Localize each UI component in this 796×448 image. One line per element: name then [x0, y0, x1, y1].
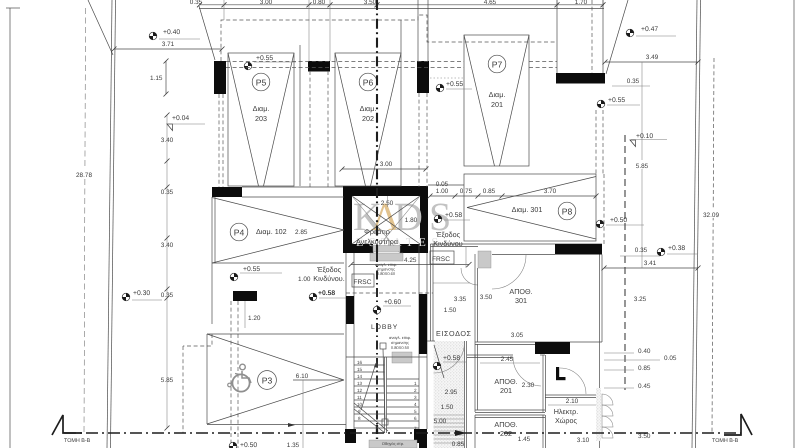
svg-text:1.00: 1.00	[436, 188, 449, 195]
left dim column line	[166, 115, 168, 428]
stair up arrow	[361, 363, 376, 410]
dim 3.41 line	[604, 267, 698, 269]
dashed line across lobby	[346, 292, 433, 294]
svg-text:FRSC: FRSC	[432, 256, 450, 263]
wall stub line right of shaft	[428, 184, 464, 186]
dim 3.00 under P6	[342, 168, 426, 170]
stair top landing line	[346, 356, 427, 358]
P3 top edge line	[207, 333, 344, 335]
svg-text:14: 14	[357, 374, 363, 379]
svg-text:ΕΙΣΟΔΟΣ: ΕΙΣΟΔΟΣ	[436, 329, 472, 338]
stall P4 triangle	[212, 198, 344, 231]
lobby tactile plate	[392, 352, 412, 363]
dim 5.85 east line	[641, 62, 643, 268]
svg-text:P6: P6	[363, 78, 374, 88]
svg-text:0.80: 0.80	[313, 0, 326, 6]
svg-text:+0.58: +0.58	[318, 290, 335, 297]
svg-text:11: 11	[357, 395, 362, 400]
aisle dashed lines	[226, 61, 464, 63]
svg-text:+0.55: +0.55	[446, 81, 463, 88]
dashed below C1	[218, 94, 220, 187]
elevator shaft outer black	[343, 186, 428, 253]
shaft door sill	[373, 246, 400, 252]
svg-text:28.78: 28.78	[76, 172, 92, 179]
svg-text:1.00: 1.00	[298, 276, 311, 283]
svg-text:1.35: 1.35	[287, 442, 300, 448]
svg-text:0.45: 0.45	[638, 383, 651, 390]
svg-text:Έξοδος: Έξοδος	[435, 230, 461, 239]
east dashed setback line	[712, 58, 714, 433]
FRSC box west	[352, 274, 374, 287]
ramp wall west	[556, 0, 558, 74]
stall P5 bubble	[252, 73, 270, 91]
marker +0.58 west	[309, 293, 317, 301]
room202 north wall	[475, 414, 545, 416]
svg-text:201: 201	[491, 100, 503, 109]
stall P7 bubble	[488, 55, 506, 73]
svg-text:Διαμ.: Διαμ.	[253, 104, 270, 113]
svg-text:3.50: 3.50	[364, 0, 377, 6]
svg-text:3.40: 3.40	[161, 137, 174, 144]
ramp diagonal boundary	[606, 0, 628, 74]
east boundary double line	[692, 0, 697, 448]
louver strip stipple	[596, 388, 601, 441]
stall P7 vee	[464, 35, 495, 166]
svg-text:16: 16	[357, 360, 363, 365]
svg-text:P3: P3	[262, 376, 273, 386]
column C4 black	[233, 291, 257, 301]
dim 1.20	[244, 301, 246, 328]
elevator shaft door gap	[373, 244, 400, 253]
svg-text:32.09: 32.09	[703, 212, 719, 219]
svg-text:3.40: 3.40	[161, 242, 174, 249]
stall P6 box	[335, 53, 401, 186]
svg-text:4.25: 4.25	[404, 257, 417, 264]
entrance door leaf	[434, 345, 444, 378]
marker +0.55 P5	[244, 62, 252, 70]
stall P5 vee	[228, 53, 259, 186]
louver door arcs	[602, 394, 613, 405]
room301 west wall	[474, 254, 476, 342]
svg-text:0.85: 0.85	[483, 188, 496, 195]
dim 0.35 right	[612, 85, 650, 87]
dim line 3.35-1.50	[433, 282, 470, 284]
room301 door jamb	[478, 251, 491, 268]
P3 dim line 1.35	[293, 379, 344, 381]
stall divider right of P5	[299, 45, 301, 186]
left border line	[9, 8, 11, 448]
svg-text:5.85: 5.85	[161, 377, 174, 384]
elec door arc	[560, 368, 586, 394]
column C2 flat	[308, 61, 330, 72]
stall P8 bubble	[558, 202, 576, 220]
P3 triangle	[207, 334, 344, 380]
room301 south black	[535, 342, 570, 354]
svg-text:+0.10: +0.10	[636, 133, 653, 140]
svg-text:0.35: 0.35	[161, 292, 174, 299]
marker +0.58 P8 left	[434, 215, 442, 223]
svg-text:3.50: 3.50	[638, 433, 651, 440]
svg-text:3.25: 3.25	[634, 296, 647, 303]
stair numbers left	[357, 360, 363, 421]
svg-text:0.35: 0.35	[627, 78, 640, 85]
room202 east wall	[542, 415, 544, 448]
svg-text:1: 1	[414, 381, 417, 386]
top dim ticks	[197, 2, 606, 7]
P3 dashed box	[183, 334, 212, 346]
elec north wall	[545, 394, 599, 396]
svg-text:13: 13	[357, 381, 363, 386]
room301 south wall	[475, 341, 602, 343]
wall band west of 201	[474, 342, 476, 357]
top building edge line	[199, 8, 604, 10]
marker +0.55 mid	[436, 84, 444, 92]
svg-text:+0.58: +0.58	[445, 212, 462, 219]
dim 3.71 line	[114, 48, 222, 50]
svg-text:2.95: 2.95	[445, 389, 458, 396]
room201 dims	[480, 362, 540, 364]
section marker west	[52, 415, 82, 435]
marker +0.30	[122, 293, 130, 301]
room201 north wall	[467, 354, 513, 356]
svg-text:4.65: 4.65	[484, 0, 497, 6]
entrance door arc	[434, 342, 465, 373]
svg-text:0.05: 0.05	[436, 181, 449, 188]
svg-text:ΑΠΟΘ.: ΑΠΟΘ.	[494, 420, 517, 429]
marker +0.47	[626, 29, 634, 37]
svg-text:1.70: 1.70	[575, 0, 588, 6]
svg-text:+0.04: +0.04	[172, 115, 189, 122]
svg-text:+0.55: +0.55	[243, 266, 260, 273]
stair steps left flight	[354, 365, 385, 428]
dashed below C2	[309, 71, 311, 187]
svg-text:3.50: 3.50	[480, 294, 493, 301]
section line vertical dash-dot	[376, 0, 378, 448]
svg-text:3.00: 3.00	[380, 161, 393, 168]
svg-text:5.00: 5.00	[434, 418, 447, 425]
svg-text:+0.40: +0.40	[163, 29, 180, 36]
svg-text:3.10: 3.10	[577, 437, 590, 444]
stair mid wall	[384, 357, 386, 433]
corridor top wall stub	[427, 340, 435, 342]
stair guide box	[369, 440, 417, 448]
corridor stipple	[434, 341, 465, 448]
wall A black	[212, 187, 242, 197]
lobby east wall black	[419, 294, 427, 354]
dashed right of P8	[603, 174, 605, 245]
stall P4 base line	[212, 262, 344, 264]
north wall line	[431, 243, 603, 245]
west boundary double line	[107, 0, 112, 448]
svg-text:0.80Χ0.50: 0.80Χ0.50	[391, 345, 410, 350]
stall P8 vee	[467, 177, 596, 208]
svg-text:1.45: 1.45	[518, 436, 531, 443]
room201 door arc	[513, 357, 541, 386]
column C3 flank lines	[417, 0, 419, 61]
svg-text:0.40: 0.40	[638, 348, 651, 355]
svg-text:0.35: 0.35	[161, 189, 174, 196]
svg-text:3.41: 3.41	[644, 260, 657, 267]
column C3	[417, 61, 429, 93]
room202 west wall	[474, 415, 476, 448]
svg-text:1.20: 1.20	[248, 315, 261, 322]
corridor door arc	[461, 268, 478, 285]
stall P6 bubble	[359, 73, 377, 91]
svg-text:+0.55: +0.55	[256, 55, 273, 62]
dim 3.49 line	[605, 61, 698, 63]
dim 28.78 vertical line	[84, 8, 86, 433]
room201 west wall	[474, 355, 476, 412]
svg-text:0.05: 0.05	[664, 355, 677, 362]
room201 east wall	[542, 355, 544, 412]
svg-text:5: 5	[414, 409, 417, 414]
svg-text:Οδηγός στρ.: Οδηγός στρ.	[382, 441, 404, 446]
elec dim	[548, 404, 596, 406]
svg-text:2: 2	[414, 388, 417, 393]
lobby west wall lines	[345, 253, 347, 429]
svg-text:ΤΟΜΗ Β-Β: ΤΟΜΗ Β-Β	[64, 438, 91, 444]
svg-text:1.80: 1.80	[405, 217, 418, 224]
svg-text:1.15: 1.15	[150, 75, 163, 82]
stall P7 box	[464, 35, 529, 166]
marker +0.50 P8 right	[596, 220, 604, 228]
svg-text:3: 3	[414, 395, 417, 400]
svg-text:3.05: 3.05	[511, 332, 524, 339]
svg-text:6: 6	[414, 416, 417, 421]
lobby west wall black	[346, 296, 354, 324]
svg-text:2.50: 2.50	[381, 200, 394, 207]
svg-text:+0.30: +0.30	[133, 290, 150, 297]
svg-text:0.85: 0.85	[638, 365, 651, 372]
svg-text:0.35: 0.35	[635, 247, 648, 254]
svg-text:Κινδύνου.: Κινδύνου.	[313, 274, 344, 283]
dim 32.09	[702, 209, 725, 218]
svg-text:0.35: 0.35	[190, 0, 203, 6]
FRSC box north	[430, 251, 454, 264]
marker +0.50 bottom left	[229, 442, 237, 448]
page frame right	[793, 0, 795, 448]
ramp dashed center	[591, 0, 593, 74]
east leader dims	[604, 352, 634, 354]
dashed below C4	[230, 301, 232, 448]
marker +0.55 right of P7	[597, 100, 605, 108]
svg-text:3.70: 3.70	[544, 188, 557, 195]
svg-text:Χώρος: Χώρος	[555, 416, 577, 425]
svg-text:Έξοδος: Έξοδος	[316, 265, 342, 274]
svg-text:0.85: 0.85	[452, 441, 465, 448]
stair rail line	[383, 349, 385, 419]
svg-text:ΑΠΟΘ.: ΑΠΟΘ.	[509, 287, 532, 296]
svg-text:3.71: 3.71	[162, 41, 175, 48]
marker +0.58 entrance	[433, 362, 441, 370]
ramp bottom wall black	[556, 73, 605, 84]
stall P4 west wall	[211, 197, 213, 324]
P8 dim line	[430, 195, 596, 197]
wheelchair symbol	[228, 364, 251, 391]
lobby east wall lines	[418, 244, 420, 429]
svg-text:Διαμ.: Διαμ.	[360, 104, 377, 113]
boundary diagonal top-left	[88, 0, 113, 55]
dim 1.15 vertical	[165, 61, 167, 94]
wall stub x466	[465, 246, 467, 268]
svg-text:1.50: 1.50	[444, 307, 457, 314]
stair steps right flight	[387, 379, 420, 428]
svg-text:Διαμ. 102: Διαμ. 102	[256, 227, 287, 236]
svg-text:ΑΠΟΘ.: ΑΠΟΘ.	[494, 377, 517, 386]
stair break lines	[354, 403, 388, 431]
svg-text:2.10: 2.10	[566, 398, 579, 405]
svg-text:Διαμ. 301: Διαμ. 301	[512, 205, 543, 214]
room301 door arc	[492, 255, 526, 289]
stair bottom black east	[414, 429, 427, 443]
stall P6 vee	[335, 53, 366, 186]
svg-text:P5: P5	[256, 78, 267, 88]
section dash-dot horizontal	[64, 432, 741, 434]
svg-text:+0.55: +0.55	[608, 97, 625, 104]
svg-text:Ηλεκτρ.: Ηλεκτρ.	[554, 407, 579, 416]
left border top tick	[6, 7, 20, 9]
stair bottom black west	[345, 429, 356, 443]
svg-text:P8: P8	[562, 207, 573, 217]
corridor west wall	[430, 244, 432, 341]
svg-text:+0.47: +0.47	[641, 26, 658, 33]
dashed above P8	[595, 110, 597, 174]
svg-text:202: 202	[362, 114, 374, 123]
leader diagonal 0.35	[199, 6, 215, 60]
stair numbers right	[414, 381, 417, 431]
svg-text:201: 201	[500, 386, 512, 395]
stall P5 box	[228, 53, 294, 186]
svg-text:12: 12	[357, 388, 363, 393]
room301 north black	[555, 244, 602, 255]
svg-text:FRSC: FRSC	[354, 279, 372, 286]
top dim chain line	[199, 4, 604, 6]
marker +0.10 triangle	[630, 140, 636, 147]
marker +0.38	[657, 248, 665, 256]
stall P6 right edge extension	[400, 20, 402, 53]
stair rail squares	[380, 343, 386, 349]
column C1	[214, 61, 226, 94]
marker +0.04 triangle	[167, 124, 173, 131]
elevator shaft cab interior	[352, 196, 420, 244]
dashed east long	[624, 135, 626, 390]
svg-text:+0.38: +0.38	[668, 245, 685, 252]
svg-text:2.45: 2.45	[501, 356, 514, 363]
stall P8 box	[464, 174, 596, 241]
svg-text:203: 203	[255, 114, 267, 123]
svg-text:2.85: 2.85	[295, 229, 308, 236]
P3 bubble	[258, 371, 277, 390]
svg-text:0.80Χ0.60: 0.80Χ0.60	[377, 271, 396, 276]
svg-text:8: 8	[358, 416, 361, 421]
marker +0.40	[149, 32, 157, 40]
section arrow	[455, 430, 466, 436]
stall P4 bubble	[230, 223, 248, 241]
svg-text:P4: P4	[234, 228, 245, 238]
wall row top line	[242, 186, 343, 188]
top extension stubs	[224, 0, 603, 61]
corridor ramp treads	[434, 415, 465, 443]
dim 4.25 line	[351, 264, 469, 266]
svg-text:5.85: 5.85	[636, 163, 649, 170]
dashed outline top	[221, 15, 556, 61]
svg-text:3.35: 3.35	[454, 296, 467, 303]
svg-text:+0.58: +0.58	[443, 355, 460, 362]
svg-text:ΤΟΜΗ Β-Β: ΤΟΜΗ Β-Β	[712, 438, 739, 444]
room301 east wall	[599, 255, 601, 448]
dashed below C3	[418, 93, 420, 187]
ramp wall east	[602, 0, 604, 74]
svg-text:4: 4	[414, 402, 417, 407]
svg-text:Κινδύνου: Κινδύνου	[433, 239, 463, 248]
svg-text:3.00: 3.00	[260, 0, 273, 6]
svg-text:2.30: 2.30	[522, 382, 535, 389]
marker +0.60 lobby	[373, 306, 381, 314]
svg-text:+0.60: +0.60	[384, 299, 401, 306]
corridor east wall	[464, 341, 466, 448]
room201 south wall	[475, 409, 545, 411]
marker +0.55 P4	[230, 273, 238, 281]
svg-text:0.75: 0.75	[460, 188, 473, 195]
svg-text:15: 15	[357, 367, 363, 372]
svg-text:LΟBBY: LΟBBY	[371, 324, 398, 331]
section marker east	[724, 414, 752, 435]
svg-text:Διαμ.: Διαμ.	[489, 90, 506, 99]
svg-text:301: 301	[515, 296, 527, 305]
shaft cross diagonals	[352, 196, 420, 244]
svg-text:P7: P7	[492, 60, 503, 70]
sill tactile plate	[370, 253, 403, 261]
stall P4 top line	[242, 196, 344, 198]
svg-text:6.10: 6.10	[296, 373, 309, 380]
entrance corridor black low	[419, 433, 427, 448]
svg-text:3.49: 3.49	[646, 54, 659, 61]
elec door jamb black	[556, 367, 559, 380]
svg-text:1.50: 1.50	[441, 404, 454, 411]
room301 inner north line	[492, 254, 555, 256]
svg-text:+0.50: +0.50	[240, 442, 257, 448]
